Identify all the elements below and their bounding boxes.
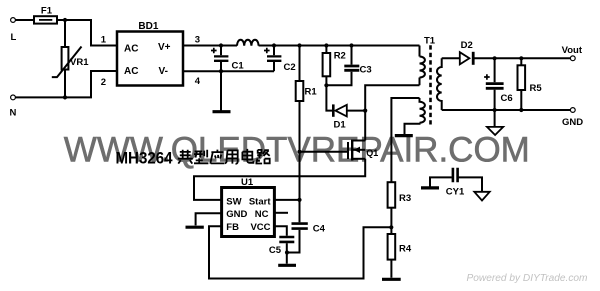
svg-text:Powered by DIYTrade.com: Powered by DIYTrade.com xyxy=(467,273,588,284)
bridge rectifier BD1 box xyxy=(117,32,183,86)
svg-text:NC: NC xyxy=(255,209,269,220)
mosfet Q1 drain stub xyxy=(352,140,365,142)
wire snubber junction down to D1 xyxy=(326,85,332,110)
resistor R3 xyxy=(388,182,396,208)
svg-text:2: 2 xyxy=(101,77,106,88)
wire U1 Start pin to junction xyxy=(274,199,299,201)
diode D1 xyxy=(335,105,346,117)
wire C1 junction down to ground xyxy=(220,71,222,110)
wire aux winding bottom to ground bar xyxy=(405,123,420,135)
svg-text:Vout: Vout xyxy=(562,45,583,56)
junction C1 top rail xyxy=(219,43,223,47)
wire D2 cathode to Vout xyxy=(475,57,571,59)
junction C4-C5 ground node xyxy=(285,250,289,254)
wire U1 GND pin to ground xyxy=(196,213,222,225)
svg-text:FB: FB xyxy=(226,222,239,233)
junction R5 top Vout rail xyxy=(519,56,523,60)
wire aux winding top to R3 column xyxy=(391,98,419,182)
wire secondary bottom rail to GND xyxy=(442,109,571,111)
svg-text:V-: V- xyxy=(159,66,168,77)
junction R5 bottom GND rail xyxy=(519,108,523,112)
svg-text:GND: GND xyxy=(226,209,247,220)
svg-text:U1: U1 xyxy=(241,177,254,188)
wire C2 bottom lead xyxy=(273,62,275,71)
wire gate from R1 line to Q1 xyxy=(300,151,349,153)
wire VR1 bottom lead xyxy=(64,70,66,98)
wire secondary top to D2 xyxy=(442,57,460,59)
char dian1 xyxy=(178,150,193,164)
svg-text:V+: V+ xyxy=(158,42,171,53)
junction C3 top rail xyxy=(349,43,353,47)
capacitor C2 plus xyxy=(264,48,270,54)
junction C6 top Vout rail xyxy=(493,56,497,60)
wire R3 bottom to R4 top xyxy=(390,208,392,234)
IC U1 box xyxy=(222,188,275,237)
capacitor C1 plates xyxy=(214,56,228,60)
char xing xyxy=(194,150,208,164)
svg-text:R5: R5 xyxy=(530,83,543,94)
wire C6 top lead xyxy=(494,58,496,82)
title chinese characters drawn as strokes xyxy=(178,149,270,164)
wire CY1 right lead to triangle xyxy=(459,177,483,191)
wire R5 top lead xyxy=(520,58,522,65)
wire BD1 pin4 bottom row xyxy=(183,70,274,72)
wire C2 top lead xyxy=(273,46,275,56)
char ying xyxy=(210,150,224,164)
wire C1 top lead xyxy=(220,46,222,56)
junction fuse-VR1 node L xyxy=(63,18,67,22)
wire C5 bottom lead xyxy=(286,243,288,264)
svg-text:AC: AC xyxy=(124,43,138,54)
svg-text:C3: C3 xyxy=(360,64,372,75)
ground bar under C1 xyxy=(213,110,231,113)
wire primary bottom to drain xyxy=(365,85,419,140)
ground bar CY1 left xyxy=(421,186,439,189)
svg-text:SW: SW xyxy=(226,196,241,207)
wire FB loop xyxy=(209,226,391,278)
wire U1 NC stub xyxy=(274,212,288,214)
wire Start junction down to C4 xyxy=(299,200,301,222)
junction R3-R4 FB node xyxy=(389,225,393,229)
mosfet Q1 body stub with arrow xyxy=(352,149,365,151)
junction R1 top rail xyxy=(297,43,301,47)
svg-text:BD1: BD1 xyxy=(138,21,158,32)
svg-text:R3: R3 xyxy=(399,193,411,204)
svg-text:N: N xyxy=(10,108,17,119)
svg-text:GND: GND xyxy=(562,117,583,128)
svg-text:C2: C2 xyxy=(284,62,296,73)
resistor R2 xyxy=(323,53,331,76)
svg-text:AC: AC xyxy=(124,66,138,77)
wire top rail inductor to transformer primary xyxy=(259,45,420,47)
wire R2 top lead xyxy=(325,46,327,54)
junction Q1 gate node xyxy=(297,150,301,154)
svg-text:D2: D2 xyxy=(461,40,473,51)
varistor VR1 diagonal stroke xyxy=(52,47,82,78)
mosfet Q1 channel bar xyxy=(351,140,353,161)
wire N input to bend up to BD1 pin2 xyxy=(15,71,117,97)
diode D2 xyxy=(460,52,470,64)
svg-text:C6: C6 xyxy=(501,93,513,104)
svg-text:4: 4 xyxy=(195,76,201,87)
wire C6 bottom lead xyxy=(494,90,496,110)
ground bar U1 GND pin xyxy=(186,226,204,229)
terminal N xyxy=(11,95,16,100)
svg-text:C5: C5 xyxy=(269,245,282,256)
wire VR1 top lead xyxy=(64,20,66,47)
svg-text:VCC: VCC xyxy=(250,222,270,233)
chassis ground triangle under C6 xyxy=(487,127,503,135)
wire R2 bottom lead xyxy=(325,76,327,85)
resistor R4 xyxy=(388,234,396,260)
ground bar under aux winding xyxy=(395,134,413,137)
svg-text:MH3264: MH3264 xyxy=(116,149,174,167)
terminal Vout xyxy=(570,56,575,61)
junction Start-C4 node xyxy=(297,198,301,202)
capacitor CY1 plates xyxy=(453,168,458,183)
junction R2 top rail xyxy=(324,43,328,47)
capacitor C5 plates xyxy=(279,237,294,242)
ground bar under C4 C5 xyxy=(278,264,296,267)
wire C6 junction to chassis triangle xyxy=(494,110,496,127)
junction D1 anode drain node xyxy=(363,109,367,113)
char dian2 xyxy=(242,149,253,163)
svg-text:C1: C1 xyxy=(232,61,245,72)
svg-text:L: L xyxy=(11,32,17,43)
svg-text:R2: R2 xyxy=(334,51,346,62)
wire L input xyxy=(15,19,34,21)
svg-text:C4: C4 xyxy=(313,223,326,234)
transformer T1 aux winding xyxy=(420,98,425,123)
svg-text:CY1: CY1 xyxy=(446,186,465,197)
svg-text:F1: F1 xyxy=(41,5,53,16)
wire CY1 left lead xyxy=(430,177,452,186)
capacitor C2 plates xyxy=(267,56,281,60)
junction C2 top rail xyxy=(272,43,276,47)
junction C6 bottom GND rail xyxy=(493,108,497,112)
transformer T1 secondary winding xyxy=(437,58,442,110)
capacitor C1 plus xyxy=(211,48,217,54)
svg-text:Start: Start xyxy=(249,196,271,207)
resistor R5 xyxy=(518,65,526,90)
junction VR1-N node N xyxy=(63,95,67,99)
mosfet Q1 gate bar xyxy=(347,142,349,159)
terminal GND xyxy=(570,108,575,113)
wire C3 top lead xyxy=(351,46,353,65)
wire Q1 source down and across to SW xyxy=(194,159,365,200)
svg-text:R4: R4 xyxy=(399,244,412,255)
svg-text:VR1: VR1 xyxy=(70,57,89,68)
svg-text:T1: T1 xyxy=(424,36,436,47)
capacitor C6 plates xyxy=(486,84,504,89)
wire R5 bottom lead xyxy=(520,90,522,110)
junction C1 bottom pin4 row xyxy=(219,69,223,73)
capacitor C6 plus xyxy=(484,74,490,80)
capacitor C4 plates xyxy=(292,224,308,229)
wire R4 bottom to ground xyxy=(390,260,392,278)
wire C3 bottom lead and joining R2 xyxy=(326,72,351,86)
transformer core dashed line xyxy=(429,45,432,124)
varistor VR1 body xyxy=(62,47,69,70)
capacitor C3 plates xyxy=(344,66,359,70)
char lu xyxy=(256,150,270,164)
fuse F1 xyxy=(34,16,57,23)
mosfet Q1 source stub xyxy=(352,158,365,160)
terminal L xyxy=(11,18,16,23)
wire C1 bottom lead xyxy=(220,62,222,71)
svg-text:3: 3 xyxy=(195,35,200,46)
wire C4 bottom to C5 junction xyxy=(287,230,300,253)
wire fuse to bend and down to BD1 pin1 xyxy=(57,20,117,46)
svg-text:1: 1 xyxy=(101,35,107,46)
inductor L1 xyxy=(237,40,259,46)
svg-text:R1: R1 xyxy=(305,87,318,98)
wire top rail BD1 pin3 to inductor xyxy=(183,45,237,47)
svg-text:Q1: Q1 xyxy=(366,148,378,158)
wire R1 bottom long vertical to start junction xyxy=(299,101,301,200)
wire R1 top lead xyxy=(299,46,301,82)
wire U1 VCC pin to C5 xyxy=(274,226,286,236)
svg-text:D1: D1 xyxy=(334,119,347,130)
junction R2-C3 snubber node xyxy=(324,83,328,87)
wire D1 anode to drain line xyxy=(347,110,365,112)
resistor R1 xyxy=(296,81,304,101)
chassis ground triangle CY1 right xyxy=(474,192,489,201)
char yong xyxy=(225,150,238,163)
transformer T1 primary vertical leads xyxy=(419,46,421,57)
transformer T1 primary winding xyxy=(420,57,425,78)
ground bar under R4 xyxy=(382,278,401,281)
